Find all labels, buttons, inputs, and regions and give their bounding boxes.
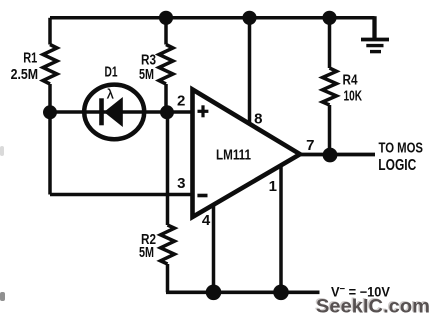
svg-text:8: 8 — [254, 110, 262, 127]
node top rail / R3 — [159, 11, 173, 25]
svg-text:1: 1 — [269, 178, 277, 195]
resistor R4 — [323, 18, 337, 150]
node top rail / pin 8 — [242, 11, 256, 25]
resistor R3 — [159, 18, 173, 106]
node bottom rail / pin 4 — [206, 285, 222, 301]
svg-text:R1: R1 — [23, 51, 37, 67]
label TO MOS LOGIC — [378, 140, 423, 173]
svg-text:5M: 5M — [139, 67, 154, 83]
minus sign inverting input — [197, 194, 207, 198]
wire bottom rail — [166, 290, 320, 294]
wire non-inverting input row through D1 (pin 2) — [50, 110, 193, 114]
node top rail / R4 — [322, 11, 336, 25]
label R2 5M — [139, 232, 156, 261]
plus sign non-inverting input — [198, 105, 209, 117]
svg-text:7: 7 — [306, 137, 314, 154]
svg-text:2.5M: 2.5M — [11, 67, 38, 83]
ground — [361, 40, 389, 52]
svg-text:LM111: LM111 — [216, 146, 251, 163]
scan smudge left edge — [0, 146, 4, 156]
watermark SeekIC.com — [315, 295, 431, 318]
wire pin 4 — [212, 204, 216, 292]
label R4 10K — [343, 73, 363, 105]
svg-text:2: 2 — [177, 92, 185, 109]
op-amp U1 LM111 — [193, 90, 301, 218]
wire middle column to R2 — [166, 112, 170, 225]
wire inverting input row (pin 3) — [50, 193, 193, 197]
node bottom rail / pin 1 — [273, 285, 289, 301]
svg-text:SeekIC.com: SeekIC.com — [316, 295, 430, 317]
node output / R4 — [323, 148, 338, 163]
photodiode D1 — [84, 85, 144, 140]
label R3 5M — [139, 53, 156, 84]
svg-text:LOGIC: LOGIC — [378, 157, 416, 174]
wire ground stub — [372, 16, 376, 39]
wire output pin 7 — [300, 153, 375, 157]
svg-text:4: 4 — [202, 212, 211, 229]
resistor R2 — [161, 225, 175, 292]
wire pin 8 — [248, 18, 252, 124]
svg-text:D1: D1 — [105, 64, 118, 80]
resistor R1 — [43, 18, 57, 106]
svg-text:λ: λ — [107, 86, 114, 101]
node R1/D1 junction — [43, 105, 57, 119]
wire left column — [48, 112, 52, 195]
svg-text:10K: 10K — [344, 89, 363, 105]
svg-text:3: 3 — [177, 175, 185, 192]
svg-text:5M: 5M — [139, 245, 154, 261]
node D1 / R3 / R2 junction — [160, 105, 174, 119]
label R1 2.5M — [11, 51, 38, 84]
svg-text:TO MOS: TO MOS — [379, 140, 424, 156]
wire top rail — [50, 16, 375, 20]
svg-text:R4: R4 — [343, 73, 358, 89]
scan smudge bottom-left — [0, 292, 5, 301]
wire pin 1 — [279, 165, 283, 292]
